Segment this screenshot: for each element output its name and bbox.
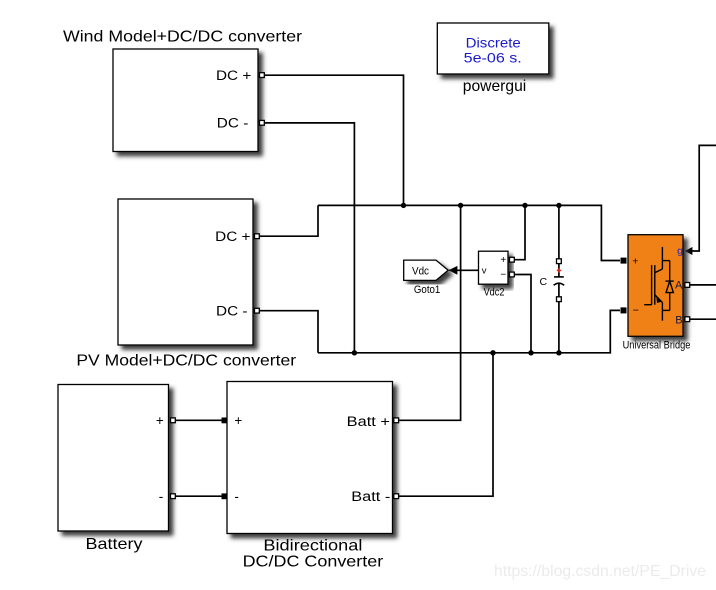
junction bottom bus at Vdc2 - (528, 350, 533, 355)
port square Vdc2 + (510, 257, 515, 262)
port square Vdc2 - (510, 272, 515, 277)
wire Wind DC+ to top bus (264, 75, 404, 205)
svg-text:Goto1: Goto1 (414, 284, 440, 296)
subsystem block Wind Model+DC/DC converter (113, 49, 258, 152)
junction top bus at capacitor (556, 203, 561, 208)
port square universal bridge + (filled) (621, 258, 627, 264)
svg-text:DC +: DC + (215, 229, 250, 244)
junction bottom bus at Wind DC- (352, 350, 357, 355)
svg-text:v: v (482, 266, 487, 277)
wire Batt- to bottom bus (399, 353, 493, 496)
port square Bidirectional + input (filled) (222, 418, 228, 424)
subsystem block PV Model+DC/DC converter (118, 199, 253, 345)
port square Bidirectional Batt- output (394, 494, 399, 499)
wire Wind DC- to bottom bus (264, 123, 354, 353)
svg-text:DC/DC Converter: DC/DC Converter (243, 554, 384, 571)
junction top bus at Wind DC+ (401, 203, 406, 208)
svg-text:g: g (677, 246, 683, 257)
svg-text:DC -: DC - (217, 116, 249, 131)
svg-text:DC +: DC + (216, 68, 251, 83)
port square Wind DC- (260, 120, 265, 125)
subsystem block Bidirectional DC/DC Converter (227, 382, 393, 534)
svg-text:Battery: Battery (86, 536, 143, 553)
port square PV DC- (255, 308, 260, 313)
wire gate signal to Universal Bridge g (685, 145, 716, 255)
svg-text:+: + (156, 413, 164, 428)
port square Battery + (171, 418, 176, 423)
svg-text:C: C (540, 276, 548, 288)
wire bottom DC bus to Universal Bridge - (318, 310, 620, 352)
label PV block title (76, 352, 296, 369)
svg-text:5e-06 s.: 5e-06 s. (464, 50, 522, 66)
label Battery title (86, 536, 143, 553)
label C (540, 276, 548, 288)
wire Universal Bridge B output (689, 318, 716, 320)
universal bridge port label + (632, 255, 638, 267)
wire Vdc2 + to top bus (514, 205, 525, 259)
universal bridge block (628, 235, 683, 337)
universal bridge port label g (677, 246, 683, 257)
junction top bus at Vdc2 + (522, 203, 527, 208)
svg-text:-: - (159, 489, 164, 504)
port square Battery - (171, 494, 176, 499)
label Wind block title (63, 29, 303, 46)
wire Batt+ to top bus (399, 205, 461, 420)
port square universal bridge A (685, 283, 690, 288)
port square universal bridge - (filled) (621, 307, 627, 313)
powergui block (437, 23, 549, 74)
universal bridge port label - (633, 304, 639, 316)
port square Wind DC+ (260, 73, 265, 78)
label Vdc2 (484, 287, 505, 299)
port square Bidirectional - input (filled) (222, 493, 228, 499)
subsystem block Battery (58, 385, 169, 532)
wire Battery + to Bidirectional + (175, 419, 222, 421)
port square PV DC+ (255, 234, 260, 239)
svg-text:−: − (633, 304, 639, 316)
svg-text:https://blog.csdn.net/PE_Drive: https://blog.csdn.net/PE_Drive (494, 563, 706, 580)
svg-text:−: − (500, 269, 506, 280)
svg-text:DC -: DC - (216, 304, 248, 319)
junction bottom bus at Batt- (490, 350, 495, 355)
label Bidirectional title line2 (243, 554, 384, 571)
wire top DC bus to Universal Bridge + (318, 205, 620, 260)
goto tag Goto1 (Vdc) (404, 260, 449, 280)
wire Vdc2 - to bottom bus (514, 275, 531, 353)
svg-text:Batt +: Batt + (347, 414, 390, 429)
label Bidirectional title line1 (263, 537, 362, 554)
port square Bidirectional Batt+ output (394, 418, 399, 423)
voltage measurement block Vdc2 (479, 251, 509, 284)
svg-text:B: B (675, 314, 682, 326)
universal bridge port label B (675, 314, 682, 326)
svg-text:PV Model+DC/DC converter: PV Model+DC/DC converter (76, 352, 296, 369)
label powergui (463, 78, 527, 95)
wire capacitor branch (558, 205, 560, 352)
wire PV DC+ to top bus (259, 205, 318, 236)
wire Battery - to Bidirectional - (175, 495, 222, 497)
svg-text:Vdc2: Vdc2 (484, 287, 505, 299)
label Goto1 (414, 284, 440, 296)
svg-text:powergui: powergui (463, 78, 527, 95)
svg-text:+: + (632, 255, 638, 267)
svg-text:Vdc: Vdc (412, 265, 429, 277)
IGBT icon inside universal bridge (644, 247, 674, 321)
wire PV DC- to bottom bus (259, 311, 318, 353)
universal bridge port label A (675, 280, 683, 292)
watermark (494, 563, 706, 580)
port square universal bridge B (685, 317, 690, 322)
svg-text:-: - (234, 489, 239, 504)
svg-text:Wind Model+DC/DC converter: Wind Model+DC/DC converter (63, 29, 303, 46)
svg-text:+: + (234, 413, 242, 428)
junction top bus at Batt+ (458, 203, 463, 208)
junction bottom bus at capacitor (556, 350, 561, 355)
svg-text:+: + (500, 255, 506, 266)
capacitor C (554, 259, 565, 302)
svg-text:Bidirectional: Bidirectional (263, 537, 362, 554)
svg-text:A: A (675, 280, 683, 292)
wire Vdc2 v output to Goto1 (449, 266, 479, 275)
svg-text:Universal Bridge: Universal Bridge (623, 340, 691, 352)
svg-text:Batt -: Batt - (351, 489, 390, 504)
wire Universal Bridge A output (689, 284, 716, 286)
svg-text:Discrete: Discrete (466, 35, 521, 51)
label Universal Bridge (623, 340, 691, 352)
